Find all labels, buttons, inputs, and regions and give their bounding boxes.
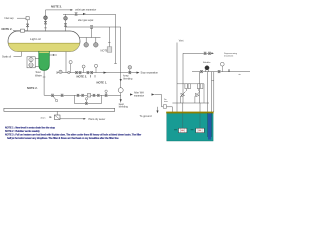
svg-text:air: air xyxy=(239,74,242,76)
svg-text:NOTE 2.: NOTE 2. xyxy=(27,86,38,90)
stub to device xyxy=(108,27,110,47)
svg-text:Swab oil: Swab oil xyxy=(2,56,12,59)
float box right xyxy=(196,128,204,133)
svg-text:Light oil: Light oil xyxy=(30,37,41,41)
valve on inlet drop xyxy=(26,24,29,27)
dip tube in tank left xyxy=(182,113,184,128)
level instrument LG lower xyxy=(29,63,33,67)
valve on bypass xyxy=(85,102,87,104)
boot side tap xyxy=(49,54,57,56)
svg-text:NOTE 3.: NOTE 3. xyxy=(51,4,62,8)
vessel bottom nozzle to manifold xyxy=(65,52,67,73)
svg-text:half jut hot wind sewer any dr: half jut hot wind sewer any droplines. T… xyxy=(7,137,119,140)
valve a xyxy=(75,71,78,73)
PSV riser with gauge xyxy=(65,14,67,31)
separator vessel V-100 xyxy=(8,31,80,52)
svg-text:bleeding: bleeding xyxy=(119,106,129,109)
svg-text:NOTE 2.: NOTE 2. xyxy=(2,27,13,31)
frame vertical right xyxy=(203,84,205,103)
wire swab oil line xyxy=(14,55,22,57)
valve c xyxy=(87,71,90,73)
svg-text:after gas separ.: after gas separ. xyxy=(78,19,94,22)
tick near float left xyxy=(174,129,177,131)
inline device box xyxy=(107,47,112,52)
svg-text:Depressuring: Depressuring xyxy=(224,52,238,55)
oil layer inside boot top xyxy=(39,52,49,53)
svg-text:riser: riser xyxy=(164,101,168,103)
bubbler tube in tank a xyxy=(207,113,209,137)
gas outlet nozzle riser xyxy=(45,10,47,31)
relief valve right xyxy=(94,43,99,48)
water boot (green) xyxy=(39,51,50,70)
dip tube in tank right xyxy=(199,113,201,128)
valve m4 xyxy=(97,94,99,96)
wire inlet drop xyxy=(27,20,29,31)
drain pot symbol xyxy=(59,70,62,73)
tiny box on line xyxy=(163,105,166,108)
valve m1 xyxy=(77,94,79,96)
float valve assembly right xyxy=(197,84,199,89)
valve on riser xyxy=(64,24,67,27)
nozzle ticks on vessel top xyxy=(44,27,47,29)
boot outlet drop xyxy=(43,70,45,95)
svg-text:treatment: treatment xyxy=(224,55,234,58)
wire water drain line xyxy=(44,94,121,96)
valve d1 xyxy=(204,52,207,54)
wire gas header upper xyxy=(63,14,116,63)
wire vapor bleed manifold xyxy=(57,72,139,74)
svg-text:outlet gas separator: outlet gas separator xyxy=(75,9,96,12)
svg-text:Stop separation: Stop separation xyxy=(141,72,159,75)
tick pair xyxy=(90,75,92,78)
drain drop xyxy=(56,112,58,115)
valve air1 xyxy=(200,70,203,72)
riser tail below manifold xyxy=(120,95,122,102)
wire air line xyxy=(192,71,250,73)
wire depressuring xyxy=(183,52,214,54)
valve with stem right xyxy=(105,94,108,96)
arrow down on riser xyxy=(120,79,122,82)
float hanger lines xyxy=(182,103,184,128)
flow arrow mid xyxy=(104,72,107,74)
control valve xyxy=(51,94,54,96)
device box on main run xyxy=(87,94,90,97)
stop separation branch xyxy=(129,69,131,73)
gate valve xyxy=(61,94,64,96)
svg-text:Plant oily sewer: Plant oily sewer xyxy=(89,118,106,121)
after WH separator label xyxy=(130,93,133,95)
wire to sewer xyxy=(60,118,86,120)
float box left xyxy=(179,128,187,133)
wire feed into vessel xyxy=(13,30,28,32)
float valve assembly left xyxy=(177,83,204,85)
wire to tank xyxy=(155,95,173,113)
depressuring riser xyxy=(182,53,184,103)
relief valve left xyxy=(84,43,89,48)
dip tube outer xyxy=(213,72,215,112)
bypass loop xyxy=(74,95,101,103)
pressure instrument on riser xyxy=(44,16,48,20)
pressure instrument xyxy=(64,16,68,20)
instrument on manifold 2 xyxy=(95,67,97,72)
svg-text:drain: drain xyxy=(41,116,47,119)
junction circle xyxy=(68,71,70,73)
bubbler instrument xyxy=(205,66,209,70)
svg-text:Water: Water xyxy=(35,73,42,77)
valve air2 xyxy=(218,70,221,72)
seal water tank xyxy=(167,113,213,141)
svg-text:separator: separator xyxy=(134,95,144,98)
tank top rim (olive) xyxy=(166,112,213,114)
level bridle frame xyxy=(27,57,35,68)
skimmer trough rectangle xyxy=(4,108,115,111)
feed box symbol xyxy=(21,29,25,32)
valve b xyxy=(79,71,82,73)
svg-text:Vent: Vent xyxy=(179,39,184,42)
PSV bracket xyxy=(80,37,101,39)
svg-text:NOTE 2.: NOTE 2. xyxy=(77,75,88,79)
valve on riser xyxy=(44,21,47,24)
inlet small box xyxy=(26,17,29,20)
wire header above tank xyxy=(172,102,209,104)
instrument stem 2 xyxy=(83,68,85,73)
svg-text:Bubbler: Bubbler xyxy=(203,61,211,64)
svg-text:NOTE 1.: NOTE 1. xyxy=(97,81,108,85)
bubbler tube in tank b xyxy=(211,113,213,137)
instrument stem 1 xyxy=(70,64,72,73)
wire vapor header lower xyxy=(66,27,121,95)
valve on header xyxy=(75,13,78,15)
swab oil outlet nozzle xyxy=(21,52,23,57)
drain trap box xyxy=(54,115,60,120)
instrument on riser xyxy=(118,88,123,93)
svg-text:Inlet sep: Inlet sep xyxy=(5,17,15,20)
wire gas outlet xyxy=(46,9,73,11)
vent riser xyxy=(176,43,178,113)
svg-text:bleeding: bleeding xyxy=(123,77,133,80)
valve d xyxy=(90,71,93,73)
valve on lower header xyxy=(90,26,93,29)
valve m2 xyxy=(81,94,83,96)
light oil layer (yellow band) xyxy=(8,43,80,52)
gauge on air line xyxy=(221,66,223,72)
svg-text:To ground: To ground xyxy=(140,114,152,118)
PSV bridle stem xyxy=(91,28,93,37)
level instrument LG upper xyxy=(29,58,33,62)
valve d2 xyxy=(208,52,211,54)
flow arrow on header xyxy=(83,13,86,15)
dip leg column (dark blue) xyxy=(208,113,211,139)
valve m3 xyxy=(93,94,95,96)
to ground branch xyxy=(157,107,159,112)
bubbler dip tubes xyxy=(198,72,200,103)
